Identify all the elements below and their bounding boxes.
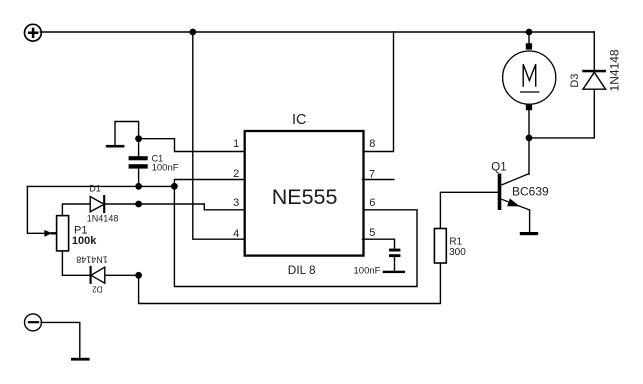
capacitor 100nF (pin 5) [354, 249, 401, 277]
wire pin 8 riser [363, 32, 394, 152]
transistor Q1 BC639 [491, 162, 549, 210]
ground (minus terminal) [71, 358, 90, 361]
node motor top junction [526, 29, 533, 36]
svg-text:8: 8 [369, 138, 375, 150]
node row2 / C1 bottom [135, 183, 142, 190]
wire pot bottom to D2 [62, 251, 89, 275]
wire top rail V+ [40, 31, 594, 33]
svg-text:1N4148: 1N4148 [608, 49, 622, 91]
svg-text:DIL 8: DIL 8 [288, 263, 316, 277]
node D2 junction [135, 272, 142, 279]
wire output rail (bottom) [139, 263, 441, 304]
svg-text:NE555: NE555 [272, 185, 338, 209]
wire trigger row (pins 2/6 row) [27, 185, 174, 187]
ground (C1 top ground) [106, 122, 139, 148]
ground (pin5 cap) [383, 271, 405, 273]
ground (emitter) [520, 232, 538, 235]
svg-text:R1: R1 [449, 236, 462, 247]
node C1 top [135, 135, 142, 142]
wire left column to wiper [27, 186, 44, 233]
wire D1 to pin 3 step [105, 204, 245, 210]
svg-text:100nF: 100nF [354, 266, 381, 277]
wire C1 top to pin 1 [139, 139, 245, 152]
diode D2 [76, 254, 108, 293]
wire R1 top to base [440, 192, 497, 228]
IC NE555 [245, 112, 364, 277]
node D1 junction [135, 201, 142, 208]
wire column to pin6 rail [174, 186, 417, 286]
svg-text:1: 1 [233, 138, 239, 150]
node row2 right [171, 183, 178, 190]
capacitor C1 [129, 139, 179, 187]
svg-text:1N4148: 1N4148 [87, 214, 119, 224]
wire pin 7 stub (NC) [363, 179, 394, 181]
wire D3 branch [529, 32, 594, 138]
wire pin 5 to capacitor [363, 239, 395, 249]
wire D2 to junction [105, 274, 138, 276]
node V+ rail junction [189, 29, 196, 36]
svg-text:5: 5 [369, 227, 375, 239]
wire emitter down [529, 210, 531, 231]
svg-text:BC639: BC639 [512, 184, 549, 198]
svg-text:D3: D3 [569, 74, 581, 88]
svg-text:D2: D2 [92, 285, 103, 294]
svg-text:2: 2 [233, 168, 239, 180]
wire jog to pin 2 [174, 180, 244, 187]
svg-text:100nF: 100nF [152, 163, 179, 174]
wire V+ rail down to pin 4 [193, 32, 245, 239]
motor M [503, 43, 556, 138]
svg-text:Q1: Q1 [491, 162, 506, 174]
diode D1 [87, 183, 119, 223]
diode D3 [569, 49, 622, 91]
svg-text:IC: IC [292, 112, 307, 128]
terminal + (plus supply) [25, 24, 42, 41]
wire motor top [528, 32, 530, 44]
wire minus to ground [41, 322, 80, 358]
node collector / motor bottom / D3 [526, 135, 533, 142]
svg-text:100k: 100k [72, 235, 97, 247]
wire collector [528, 138, 530, 174]
svg-text:1N4148: 1N4148 [76, 254, 108, 264]
svg-text:4: 4 [233, 228, 239, 240]
svg-text:300: 300 [449, 247, 466, 258]
svg-text:3: 3 [233, 197, 239, 209]
terminal - (minus supply) [25, 314, 42, 331]
potentiometer P1 [44, 216, 97, 251]
resistor R1 [434, 229, 466, 264]
svg-text:7: 7 [369, 168, 375, 180]
svg-text:6: 6 [369, 197, 375, 209]
svg-text:D1: D1 [89, 183, 101, 193]
wire pot top to D1 [62, 204, 90, 216]
